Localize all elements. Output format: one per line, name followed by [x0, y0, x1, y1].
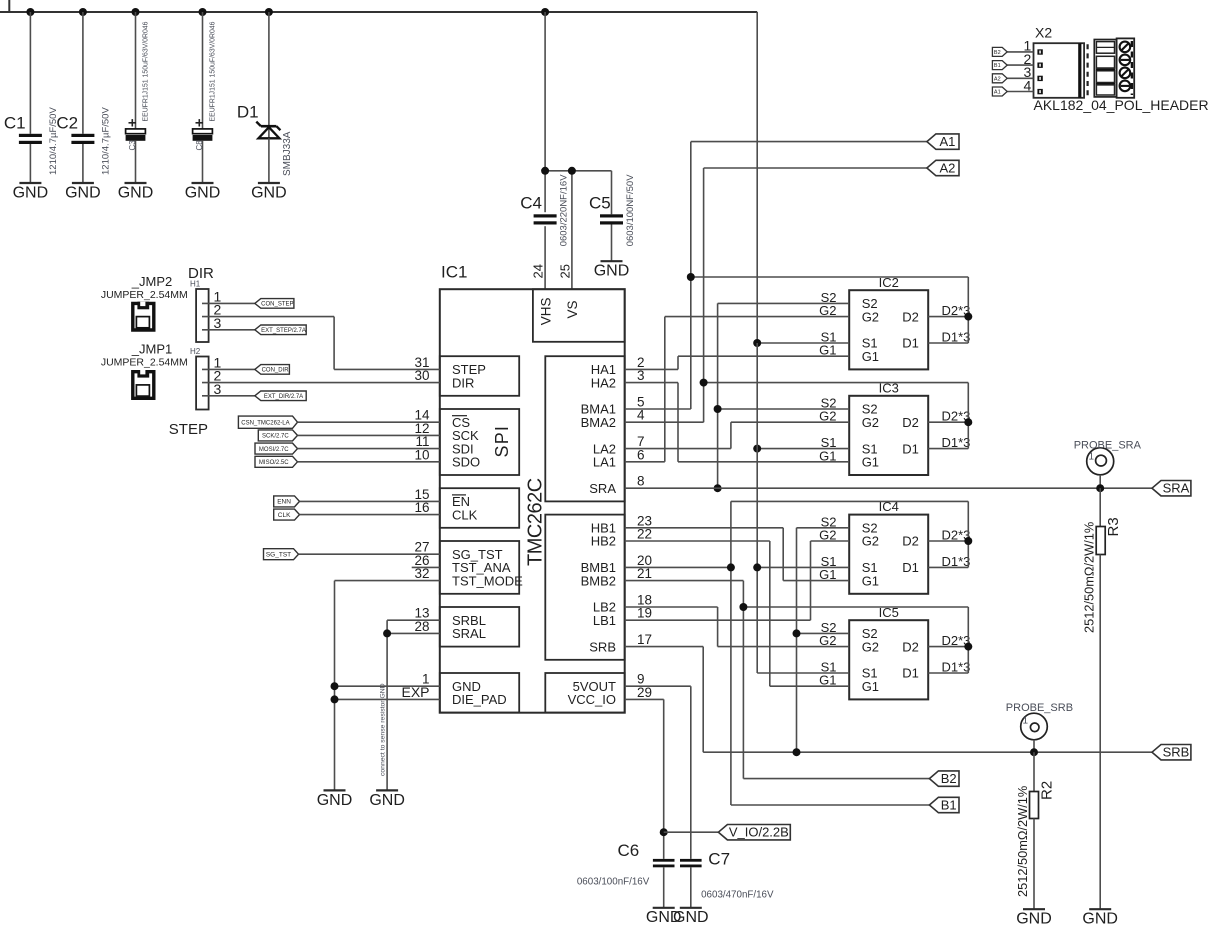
svg-text:4: 4: [1024, 77, 1032, 93]
svg-text:4: 4: [637, 408, 645, 423]
svg-text:C7: C7: [708, 849, 730, 868]
svg-text:3: 3: [214, 381, 222, 397]
svg-text:GND: GND: [65, 184, 101, 201]
svg-text:AKL182_04_POL_HEADER: AKL182_04_POL_HEADER: [1034, 97, 1209, 113]
svg-text:D1: D1: [237, 103, 259, 122]
svg-text:JUMPER_2.54MM: JUMPER_2.54MM: [101, 289, 188, 301]
svg-text:8: 8: [637, 474, 645, 489]
svg-text:C8: C8: [195, 140, 204, 151]
svg-text:6: 6: [637, 447, 645, 462]
svg-text:SRB: SRB: [1163, 745, 1190, 760]
svg-text:GND: GND: [185, 184, 221, 201]
svg-text:B2: B2: [994, 50, 1001, 56]
svg-text:LB1: LB1: [593, 613, 616, 628]
svg-text:DIE_PAD: DIE_PAD: [452, 692, 507, 707]
svg-text:B1: B1: [994, 63, 1001, 69]
svg-text:G2: G2: [862, 415, 879, 430]
svg-text:1: 1: [1023, 716, 1029, 727]
svg-text:TMC262C: TMC262C: [525, 478, 547, 566]
svg-text:G2: G2: [862, 639, 879, 654]
svg-text:VCC_IO: VCC_IO: [568, 692, 616, 707]
svg-text:D1: D1: [902, 441, 919, 456]
svg-text:SPI: SPI: [492, 425, 512, 458]
svg-text:SMBJ33A: SMBJ33A: [282, 131, 293, 176]
svg-text:21: 21: [637, 566, 652, 581]
svg-text:HB2: HB2: [591, 534, 616, 549]
svg-text:R3: R3: [1105, 517, 1122, 536]
svg-text:SRA: SRA: [1163, 481, 1190, 496]
svg-text:G1: G1: [862, 679, 879, 694]
svg-text:_JMP2: _JMP2: [131, 274, 172, 289]
svg-text:G1: G1: [862, 349, 879, 364]
svg-text:MISO/2.5C: MISO/2.5C: [259, 460, 289, 466]
svg-text:EEUFR1J151 150uF/63V/0R046: EEUFR1J151 150uF/63V/0R046: [143, 21, 150, 121]
svg-text:B2: B2: [941, 771, 957, 786]
svg-text:G1: G1: [862, 573, 879, 588]
svg-text:D1*3: D1*3: [942, 330, 971, 345]
svg-text:1210/4.7µF/50V: 1210/4.7µF/50V: [100, 107, 111, 175]
svg-text:24: 24: [531, 264, 546, 278]
svg-text:25: 25: [557, 264, 572, 278]
svg-text:V_IO/2.2B: V_IO/2.2B: [729, 825, 789, 840]
svg-text:VS: VS: [565, 300, 580, 318]
svg-text:A1: A1: [939, 134, 955, 149]
svg-text:H2: H2: [190, 347, 201, 356]
svg-text:EXT_STEP/2.7A: EXT_STEP/2.7A: [261, 328, 306, 334]
svg-text:29: 29: [637, 685, 652, 700]
svg-text:D2: D2: [902, 639, 919, 654]
svg-text:connect to sense resistor GND: connect to sense resistor GND: [380, 683, 387, 776]
svg-text:17: 17: [637, 632, 652, 647]
svg-text:SDO: SDO: [452, 455, 480, 470]
svg-text:D1*3: D1*3: [942, 435, 971, 450]
svg-text:C3: C3: [128, 140, 137, 151]
svg-text:C2: C2: [56, 114, 78, 133]
svg-text:TST_MODE: TST_MODE: [452, 573, 523, 588]
svg-text:3: 3: [214, 315, 222, 331]
svg-text:BMB2: BMB2: [581, 573, 616, 588]
svg-text:JUMPER_2.54MM: JUMPER_2.54MM: [101, 356, 188, 368]
svg-text:X2: X2: [1035, 25, 1052, 41]
svg-text:SRAL: SRAL: [452, 626, 486, 641]
svg-text:EEUFR1J151 150uF/63V/0R046: EEUFR1J151 150uF/63V/0R046: [210, 21, 217, 121]
svg-text:GND: GND: [646, 909, 682, 926]
svg-text:CLK: CLK: [278, 512, 291, 519]
svg-text:2512/50mΩ/2W/1%: 2512/50mΩ/2W/1%: [1081, 522, 1096, 633]
svg-text:GND: GND: [317, 792, 353, 809]
svg-text:C5: C5: [589, 193, 611, 212]
svg-text:D2: D2: [902, 309, 919, 324]
svg-text:SRB: SRB: [589, 639, 616, 654]
svg-text:D1: D1: [902, 666, 919, 681]
svg-text:30: 30: [414, 368, 429, 383]
svg-text:C1: C1: [4, 114, 26, 133]
svg-text:GND: GND: [369, 792, 405, 809]
svg-text:SCK/2.7C: SCK/2.7C: [262, 434, 289, 440]
svg-text:0603/220NF/16V: 0603/220NF/16V: [559, 174, 570, 246]
svg-text:22: 22: [637, 527, 652, 542]
svg-text:28: 28: [414, 619, 429, 634]
svg-text:BMA2: BMA2: [581, 415, 616, 430]
svg-text:DIR: DIR: [188, 265, 214, 282]
svg-text:2512/50mΩ/2W/1%: 2512/50mΩ/2W/1%: [1015, 786, 1030, 897]
svg-text:IC1: IC1: [441, 263, 467, 282]
svg-text:0603/100nF/16V: 0603/100nF/16V: [577, 877, 650, 888]
svg-text:ENN: ENN: [277, 499, 291, 506]
svg-text:PROBE_SRA: PROBE_SRA: [1074, 440, 1142, 452]
svg-text:1: 1: [1089, 452, 1095, 463]
svg-text:10: 10: [414, 447, 429, 462]
svg-text:GND: GND: [118, 184, 154, 201]
svg-text:GND: GND: [251, 184, 287, 201]
svg-text:G1: G1: [862, 455, 879, 470]
svg-text:SRA: SRA: [589, 481, 616, 496]
svg-text:A2: A2: [939, 160, 955, 175]
svg-text:EXT_DIR/2.7A: EXT_DIR/2.7A: [264, 394, 303, 400]
svg-text:SG_TST: SG_TST: [266, 552, 291, 559]
svg-text:GND: GND: [1082, 911, 1118, 927]
svg-text:D1*3: D1*3: [942, 554, 971, 569]
svg-text:R2: R2: [1039, 781, 1056, 800]
svg-text:PROBE_SRB: PROBE_SRB: [1006, 702, 1073, 714]
svg-text:G2: G2: [862, 309, 879, 324]
svg-text:3: 3: [637, 368, 645, 383]
svg-text:16: 16: [414, 500, 429, 515]
svg-text:A2: A2: [994, 76, 1001, 82]
svg-text:CON_DIR: CON_DIR: [262, 367, 290, 373]
svg-text:A1: A1: [994, 89, 1001, 95]
svg-text:D2: D2: [902, 534, 919, 549]
svg-text:CLK: CLK: [452, 507, 478, 522]
svg-text:VHS: VHS: [538, 297, 553, 325]
svg-text:0603/100NF/50V: 0603/100NF/50V: [625, 174, 636, 246]
svg-text:CSN_TMC262-LA: CSN_TMC262-LA: [241, 420, 289, 426]
svg-text:GND: GND: [1016, 911, 1052, 927]
svg-text:_JMP1: _JMP1: [131, 342, 172, 357]
svg-text:D1: D1: [902, 560, 919, 575]
svg-text:CON_STEP: CON_STEP: [261, 301, 293, 307]
svg-text:B1: B1: [941, 797, 957, 812]
svg-text:D2: D2: [902, 415, 919, 430]
svg-text:MOSI/2.7C: MOSI/2.7C: [259, 447, 289, 453]
svg-text:LA1: LA1: [593, 455, 616, 470]
svg-text:STEP: STEP: [169, 421, 208, 438]
svg-text:GND: GND: [13, 184, 49, 201]
svg-text:G2: G2: [862, 534, 879, 549]
svg-text:32: 32: [414, 566, 429, 581]
svg-text:D1: D1: [902, 336, 919, 351]
svg-text:C6: C6: [617, 841, 639, 860]
svg-text:19: 19: [637, 606, 652, 621]
svg-text:HA2: HA2: [591, 375, 616, 390]
svg-text:C4: C4: [520, 193, 542, 212]
svg-text:D1*3: D1*3: [942, 660, 971, 675]
svg-text:DIR: DIR: [452, 375, 474, 390]
svg-text:GND: GND: [594, 263, 630, 280]
svg-text:0603/470nF/16V: 0603/470nF/16V: [701, 890, 774, 901]
